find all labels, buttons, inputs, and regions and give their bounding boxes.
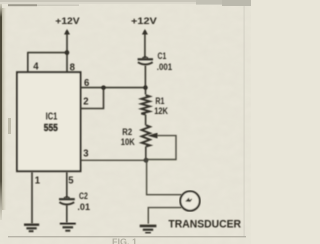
IC IC1 (555 timer) body: [17, 72, 81, 171]
transducer circle: [180, 191, 199, 210]
svg-text:C1: C1: [158, 51, 167, 61]
resistor R1 zigzag: [141, 95, 149, 115]
svg-text:2: 2: [83, 97, 89, 108]
ground symbol under C2: [60, 223, 76, 230]
wire R1 to R2: [145, 115, 147, 126]
wire pin 8 vertical: [66, 53, 68, 73]
svg-text:FIG. 1: FIG. 1: [112, 237, 137, 244]
wire pin 3 horizontal: [81, 159, 147, 161]
node junction dot pins 2/6: [101, 85, 105, 89]
wire transducer bottom lead to ground: [148, 208, 181, 224]
node junction dot pins 4/8: [65, 50, 70, 55]
bottom rule: [8, 236, 246, 237]
svg-text:6: 6: [84, 78, 90, 89]
svg-text:R2: R2: [122, 127, 132, 137]
svg-text:C2: C2: [79, 191, 88, 201]
svg-text:R1: R1: [155, 96, 164, 106]
ground symbol under pin 1: [24, 225, 39, 232]
node junction dot R2/pin3: [144, 158, 149, 163]
svg-text:.01: .01: [77, 202, 90, 212]
svg-text:5: 5: [68, 176, 74, 187]
left page-edge shadow: [0, 4, 2, 220]
svg-text:12K: 12K: [154, 106, 168, 116]
wire pins 4-8 top horizontal: [28, 52, 67, 54]
wire node to R1: [145, 88, 147, 95]
capacitor C2 plates: [64, 197, 70, 198]
wire C2 to ground: [66, 205, 68, 223]
svg-text:555: 555: [44, 123, 58, 134]
wire node to transducer top lead: [147, 160, 182, 194]
svg-text:1: 1: [35, 176, 41, 187]
wire R2 to node: [145, 147, 147, 161]
wire pin 6 horizontal: [81, 87, 146, 89]
node junction dot C1/R1: [143, 85, 147, 89]
capacitor C1 plates: [142, 57, 148, 58]
wire +12V right vertical: [144, 31, 146, 59]
power +12V right arrow: [142, 29, 148, 35]
svg-text:.001: .001: [157, 62, 172, 72]
wire pin 5 vertical upper: [66, 172, 68, 199]
wire pin 2 bracket: [81, 88, 104, 109]
resistor R2 zigzag (potentiometer): [142, 125, 150, 146]
wire R2 wiper loop: [146, 136, 176, 160]
power +12V left arrow: [64, 29, 70, 35]
transducer inner mark: [186, 198, 192, 201]
paper background: [0, 0, 251, 244]
wire +12V left vertical: [66, 31, 68, 53]
svg-text:3: 3: [83, 148, 89, 159]
svg-text:TRANSDUCER: TRANSDUCER: [168, 219, 241, 231]
svg-text:8: 8: [70, 62, 76, 73]
ground symbol under transducer: [140, 226, 157, 233]
wire C1 to node: [144, 66, 146, 88]
svg-text:+12V: +12V: [131, 16, 157, 27]
svg-text:4: 4: [33, 61, 39, 72]
wire pin 4 vertical: [27, 52, 29, 73]
svg-text:10K: 10K: [121, 137, 135, 147]
svg-text:IC1: IC1: [46, 111, 58, 122]
potentiometer R2 wiper arrow: [147, 133, 157, 139]
svg-text:+12V: +12V: [55, 16, 80, 27]
wire pin 1 vertical: [31, 172, 33, 224]
